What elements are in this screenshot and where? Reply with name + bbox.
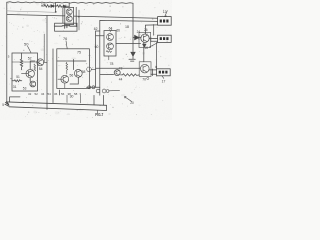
block BL1 box <box>158 17 172 26</box>
wire tick x80.6 <box>80 95 82 103</box>
block BL1 text <box>160 20 169 23</box>
lead line from BL2 <box>149 43 158 48</box>
resistor R4 <box>121 74 140 76</box>
lead line from BL3 <box>162 76 164 79</box>
wire vertical x55.6 <box>55 2 57 12</box>
resistor R1 <box>42 5 52 8</box>
wire Q5 emitter <box>70 77 78 84</box>
wire bottom bus line1 <box>7 102 107 105</box>
resistor R8 <box>34 64 36 71</box>
lead line to BL1 <box>165 11 168 17</box>
transistor Q9 <box>141 34 149 42</box>
wire stub y96.9 <box>10 97 20 102</box>
wire rail A right segment <box>74 16 158 18</box>
terminal P1 <box>96 89 100 93</box>
wire vertical x103.6 <box>103 95 105 105</box>
label row of pin numbers <box>28 92 82 96</box>
wire stub y35.8 <box>96 31 104 36</box>
wire vertical x47 <box>46 16 48 110</box>
wire U2 output <box>116 42 141 44</box>
junction bottom left <box>5 102 9 106</box>
junction dot rail A <box>78 16 79 17</box>
resistor R5 inside U2 <box>106 51 111 53</box>
lead line label 64 <box>110 30 112 33</box>
transistor Q1 <box>66 9 72 15</box>
scan speckle noise <box>2 1 170 118</box>
junction at BL3 top <box>155 66 157 68</box>
wire S2 internal vertical <box>72 59 74 69</box>
wire BL1 to BL2 <box>153 25 155 36</box>
terminal P2 <box>102 89 106 93</box>
wire rail B with corner down <box>100 20 158 95</box>
battery B1 plates <box>55 24 77 28</box>
wire tick x59.6 <box>59 90 61 95</box>
transistor Q4 <box>30 81 36 87</box>
wire tick x67 <box>66 95 68 102</box>
wire vertical x44 <box>43 34 45 62</box>
terminal small T1 <box>88 86 91 89</box>
junction blob x55.6 rail2 <box>55 11 57 13</box>
wire Q9 emitter down <box>143 42 145 61</box>
wire Q6 emitter stub <box>64 83 66 88</box>
wire Q9 collector from rail <box>145 25 157 34</box>
block BL2 box <box>158 35 172 42</box>
wire base feed y68.2 <box>96 67 140 69</box>
wire vertical x53 <box>52 49 54 103</box>
wire Q3 emitter <box>29 78 31 81</box>
wire Q9 to block2 <box>149 37 157 42</box>
transistor Q5 <box>74 70 82 78</box>
wire left bus vertical <box>6 2 8 102</box>
wire BL2 to BL3 <box>155 42 157 68</box>
terminal small T2 <box>92 86 95 89</box>
wire right of U1 <box>75 7 77 26</box>
wire rail A left segment <box>7 15 65 16</box>
module box around Q9 <box>139 32 151 47</box>
lead line label 50 <box>28 46 31 53</box>
wire stub y87.3 <box>87 86 100 88</box>
sub-circuit box S1 <box>12 53 38 91</box>
transistor Q3 <box>26 69 34 77</box>
transistor Q8 <box>107 43 114 50</box>
lead line label 76 <box>66 41 67 49</box>
amplifier block U1 box <box>65 7 74 24</box>
wire top supply rail (wavy scanned line) <box>7 2 133 4</box>
block BL2 text <box>160 37 169 40</box>
wire diode to x55.6 <box>54 5 57 7</box>
wire to U1 stub <box>66 5 69 7</box>
resistor R2 <box>20 53 22 70</box>
wire stub below bus <box>97 110 99 113</box>
wire faint rail y11 <box>7 11 56 12</box>
wire vertical x94 <box>93 95 95 105</box>
driver stage box U2 <box>104 31 116 56</box>
wire bottom bus line2 <box>9 107 106 111</box>
wire base feed y74.2 <box>100 73 114 75</box>
wire from terminals <box>109 89 120 91</box>
ground <box>129 59 135 61</box>
wire bus right end <box>105 105 107 110</box>
transistor Q2 <box>66 16 72 22</box>
transistor Q10 <box>141 64 150 73</box>
transistor Q13 small left <box>87 67 92 72</box>
junction dot top chain <box>55 5 56 6</box>
wire S2 internal top <box>57 60 86 62</box>
wire U2 bottom stub <box>108 56 110 60</box>
transistor Q6 <box>61 75 69 83</box>
diode D5 <box>63 5 66 8</box>
wire Q10 to block3 <box>149 69 156 76</box>
wire Q3 collector <box>30 61 35 69</box>
wire U1 top stub <box>68 3 70 8</box>
wire S1 internal top <box>12 61 38 63</box>
wire U1 bottom stub <box>68 25 70 26</box>
transistor Q11 <box>114 70 120 76</box>
diode D1 to ground <box>131 52 135 59</box>
diode D3 <box>133 35 141 39</box>
diode D4 inside Q9 module <box>143 44 147 47</box>
resistor R7 <box>57 5 62 7</box>
wire right drop from top rail <box>132 3 134 52</box>
diode D2 <box>51 5 54 8</box>
lead line bottom right <box>125 96 132 101</box>
battery B1 box <box>55 23 77 31</box>
transistor Q7 <box>107 34 114 41</box>
block BL3 box <box>157 69 171 76</box>
module box around Q10 <box>139 62 151 77</box>
terminal P3 <box>106 90 109 93</box>
wire right of U1 outer <box>78 10 80 30</box>
transistor Q12 <box>37 59 44 66</box>
resistor R3 <box>12 80 22 82</box>
sub-circuit box S2 <box>57 49 90 89</box>
wire vertical x95.6 <box>95 31 97 87</box>
block BL3 text <box>159 71 168 74</box>
resistor R6 inside S2 <box>66 63 68 75</box>
wire vertical x62.9 <box>62 6 64 23</box>
